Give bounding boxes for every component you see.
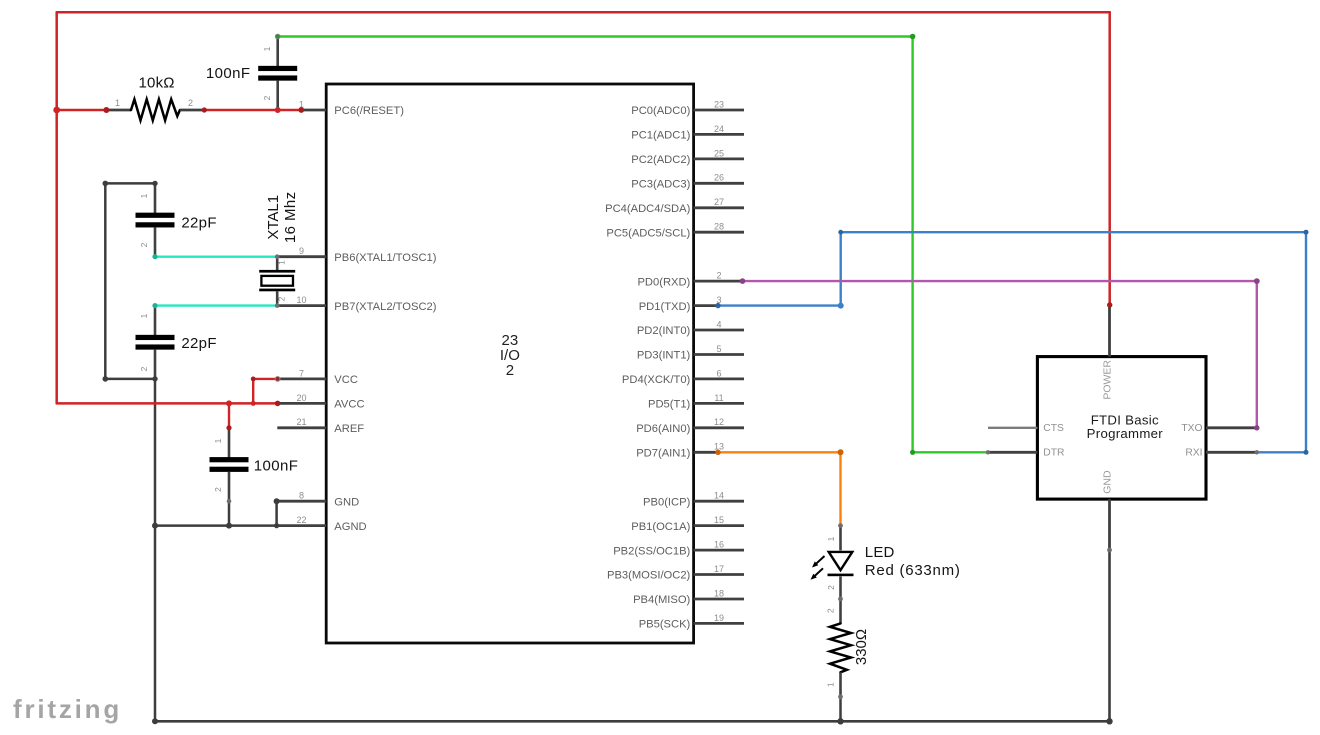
svg-text:PB1(OC1A): PB1(OC1A) bbox=[631, 521, 690, 533]
svg-text:2: 2 bbox=[826, 585, 836, 590]
svg-text:4: 4 bbox=[716, 319, 721, 329]
svg-text:Programmer: Programmer bbox=[1087, 426, 1164, 441]
svg-text:PB5(SCK): PB5(SCK) bbox=[639, 619, 691, 631]
svg-text:PB4(MISO): PB4(MISO) bbox=[633, 594, 690, 606]
svg-text:1: 1 bbox=[277, 260, 287, 265]
svg-text:PB2(SS/OC1B): PB2(SS/OC1B) bbox=[613, 545, 690, 557]
svg-text:100nF: 100nF bbox=[254, 457, 299, 474]
svg-text:CTS: CTS bbox=[1043, 423, 1064, 434]
svg-text:17: 17 bbox=[714, 564, 724, 574]
svg-text:PD3(INT1): PD3(INT1) bbox=[637, 350, 691, 362]
svg-text:PC1(ADC1): PC1(ADC1) bbox=[631, 130, 690, 142]
svg-text:RXI: RXI bbox=[1185, 448, 1202, 459]
svg-text:2: 2 bbox=[139, 242, 149, 247]
svg-text:28: 28 bbox=[714, 222, 724, 232]
svg-text:16: 16 bbox=[714, 540, 724, 550]
svg-text:PD4(XCK/T0): PD4(XCK/T0) bbox=[622, 374, 691, 386]
svg-text:1: 1 bbox=[115, 98, 120, 108]
svg-text:PD7(AIN1): PD7(AIN1) bbox=[636, 448, 690, 460]
svg-text:AVCC: AVCC bbox=[334, 399, 364, 411]
svg-text:2: 2 bbox=[506, 362, 514, 379]
svg-text:26: 26 bbox=[714, 173, 724, 183]
svg-text:PB7(XTAL2/TOSC2): PB7(XTAL2/TOSC2) bbox=[334, 301, 436, 313]
svg-text:XTAL1: XTAL1 bbox=[265, 195, 282, 240]
svg-text:14: 14 bbox=[714, 491, 724, 501]
svg-text:21: 21 bbox=[296, 417, 306, 427]
svg-text:DTR: DTR bbox=[1043, 448, 1064, 459]
svg-text:9: 9 bbox=[299, 246, 304, 256]
svg-text:1: 1 bbox=[139, 193, 149, 198]
svg-text:2: 2 bbox=[213, 487, 223, 492]
svg-text:LED: LED bbox=[865, 544, 895, 561]
svg-text:PC3(ADC3): PC3(ADC3) bbox=[631, 179, 690, 191]
svg-text:PC6(/RESET): PC6(/RESET) bbox=[334, 105, 404, 117]
svg-text:100nF: 100nF bbox=[206, 65, 251, 82]
svg-text:23: 23 bbox=[714, 99, 724, 109]
svg-text:PC5(ADC5/SCL): PC5(ADC5/SCL) bbox=[606, 227, 690, 239]
svg-text:25: 25 bbox=[714, 148, 724, 158]
svg-text:12: 12 bbox=[714, 417, 724, 427]
svg-text:PD0(RXD): PD0(RXD) bbox=[637, 276, 690, 288]
svg-text:8: 8 bbox=[299, 491, 304, 501]
svg-text:1: 1 bbox=[825, 682, 835, 687]
svg-text:Red (633nm): Red (633nm) bbox=[865, 562, 961, 579]
svg-text:PD1(TXD): PD1(TXD) bbox=[639, 301, 691, 313]
svg-text:PC0(ADC0): PC0(ADC0) bbox=[631, 105, 690, 117]
svg-text:2: 2 bbox=[188, 98, 193, 108]
svg-text:PB6(XTAL1/TOSC1): PB6(XTAL1/TOSC1) bbox=[334, 252, 436, 264]
svg-text:24: 24 bbox=[714, 124, 724, 134]
svg-text:VCC: VCC bbox=[334, 374, 358, 386]
svg-text:1: 1 bbox=[262, 46, 272, 51]
svg-text:5: 5 bbox=[716, 344, 721, 354]
svg-text:22pF: 22pF bbox=[181, 335, 216, 352]
svg-text:PD2(INT0): PD2(INT0) bbox=[637, 325, 691, 337]
svg-text:330Ω: 330Ω bbox=[853, 629, 870, 665]
svg-text:AREF: AREF bbox=[334, 423, 364, 435]
svg-text:15: 15 bbox=[714, 515, 724, 525]
svg-text:6: 6 bbox=[716, 368, 721, 378]
svg-text:1: 1 bbox=[826, 536, 836, 541]
svg-text:2: 2 bbox=[139, 366, 149, 371]
svg-text:1: 1 bbox=[213, 438, 223, 443]
svg-text:2: 2 bbox=[716, 271, 721, 281]
svg-text:2: 2 bbox=[825, 608, 835, 613]
svg-text:PC2(ADC2): PC2(ADC2) bbox=[631, 154, 690, 166]
svg-text:PC4(ADC4/SDA): PC4(ADC4/SDA) bbox=[605, 203, 690, 215]
svg-text:PD5(T1): PD5(T1) bbox=[648, 399, 691, 411]
svg-text:GND: GND bbox=[1101, 470, 1113, 494]
svg-text:11: 11 bbox=[714, 393, 723, 403]
svg-text:10: 10 bbox=[296, 295, 306, 305]
svg-text:fritzing: fritzing bbox=[13, 694, 122, 724]
svg-text:16 Mhz: 16 Mhz bbox=[282, 192, 299, 244]
svg-text:19: 19 bbox=[714, 613, 724, 623]
svg-text:18: 18 bbox=[714, 588, 724, 598]
svg-text:20: 20 bbox=[296, 393, 306, 403]
svg-text:22pF: 22pF bbox=[181, 214, 216, 231]
svg-text:1: 1 bbox=[139, 313, 149, 318]
svg-text:AGND: AGND bbox=[334, 521, 366, 533]
svg-text:10kΩ: 10kΩ bbox=[138, 75, 174, 92]
svg-text:PD6(AIN0): PD6(AIN0) bbox=[636, 423, 690, 435]
svg-text:7: 7 bbox=[299, 368, 304, 378]
svg-text:2: 2 bbox=[262, 95, 272, 100]
svg-text:2: 2 bbox=[277, 296, 287, 301]
svg-text:GND: GND bbox=[334, 496, 359, 508]
svg-text:27: 27 bbox=[714, 197, 724, 207]
svg-text:PB3(MOSI/OC2): PB3(MOSI/OC2) bbox=[607, 570, 691, 582]
svg-text:PB0(ICP): PB0(ICP) bbox=[643, 496, 691, 508]
svg-text:POWER: POWER bbox=[1101, 360, 1113, 400]
svg-text:TXO: TXO bbox=[1181, 423, 1202, 434]
svg-text:22: 22 bbox=[296, 515, 306, 525]
